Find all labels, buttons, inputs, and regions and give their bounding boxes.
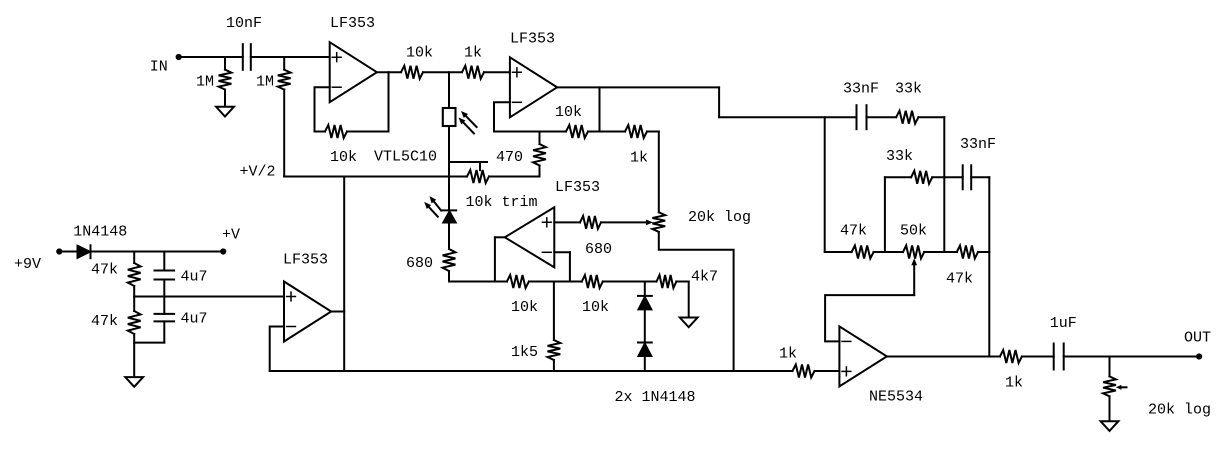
resistor R 1k (NE5534 +in) <box>779 346 815 378</box>
op-amp U2 LF353 <box>510 31 557 118</box>
wire pot bottom to rail <box>659 232 734 371</box>
wiper arrow into 20k log <box>601 220 653 226</box>
svg-text:1k5: 1k5 <box>511 344 538 361</box>
resistor R 1k (to pot) <box>625 125 648 167</box>
svg-text:680: 680 <box>406 255 433 272</box>
wire 1k to NE5534 <box>815 370 840 372</box>
potentiometer R 20k log (volume) <box>1103 357 1211 422</box>
wire U3 +in to 680 <box>554 221 580 223</box>
wire NE5534 output <box>887 356 1000 358</box>
LED of VTL5C10 <box>442 210 456 222</box>
wire divider bottom <box>134 343 164 378</box>
svg-text:1k: 1k <box>1005 374 1023 391</box>
wire cap to opamp U1 <box>251 56 330 58</box>
wire row mid1 <box>529 281 582 283</box>
svg-text:4k7: 4k7 <box>691 269 718 286</box>
node +9V terminal <box>14 248 62 273</box>
wire row mid2 <box>603 281 657 283</box>
ground (4k7) <box>680 318 698 328</box>
svg-text:IN: IN <box>150 59 168 76</box>
svg-text:10k: 10k <box>582 299 609 316</box>
svg-text:VTL5C10: VTL5C10 <box>374 149 437 166</box>
svg-text:LF353: LF353 <box>330 15 375 32</box>
svg-text:10k trim: 10k trim <box>466 194 538 211</box>
node OUT terminal <box>1184 330 1211 360</box>
svg-text:1N4148: 1N4148 <box>73 223 127 240</box>
svg-text:NE5534: NE5534 <box>869 389 923 406</box>
wire NE5534 -in from wiper <box>825 258 917 341</box>
resistor R 47k (lower) <box>91 297 141 343</box>
resistor R 33k (top) <box>895 81 922 124</box>
svg-text:33nF: 33nF <box>960 136 996 153</box>
wire 1k to 1uF <box>1022 356 1054 358</box>
svg-text:33k: 33k <box>895 81 922 98</box>
capacitor C 33nF (mid) <box>960 136 996 189</box>
wire U3 output <box>495 237 504 281</box>
potentiometer R 50k <box>900 222 927 258</box>
node IN terminal <box>150 54 182 76</box>
resistor R 47k (T left) <box>840 222 874 258</box>
svg-text:1k: 1k <box>464 45 482 62</box>
op-amp U1 LF353 <box>330 15 377 102</box>
capacitor C 4u7 (upper) <box>155 252 208 297</box>
svg-text:+9V: +9V <box>14 256 41 273</box>
wire 470 to U2 feedback <box>539 132 541 145</box>
op-amp U5 NE5534 <box>839 326 923 405</box>
resistor R 1k (output) <box>1000 350 1023 391</box>
wire trim to 470 <box>489 166 540 177</box>
svg-text:1k: 1k <box>779 346 797 363</box>
svg-text:20k log: 20k log <box>688 209 751 226</box>
svg-text:47k: 47k <box>91 262 118 279</box>
capacitor C 33nF (top) <box>843 81 879 130</box>
wire bottom rail <box>270 370 793 372</box>
wire row to diodes <box>644 282 646 296</box>
svg-text:20k log: 20k log <box>1148 402 1211 419</box>
resistor R 1k5 <box>511 282 560 372</box>
svg-text:OUT: OUT <box>1184 330 1211 347</box>
LED light arrows <box>424 196 441 217</box>
svg-text:+V/2: +V/2 <box>240 164 276 181</box>
wire U2 output rail <box>556 87 856 117</box>
svg-text:1M: 1M <box>256 74 274 91</box>
svg-text:33nF: 33nF <box>843 81 879 98</box>
ground (1M input) <box>216 107 234 117</box>
svg-text:10k: 10k <box>330 149 357 166</box>
resistor R 10k (U3 fb left) <box>507 275 538 316</box>
resistor R 10k (U2 feedback) <box>555 104 588 138</box>
svg-text:10k: 10k <box>511 299 538 316</box>
wire buffer output <box>331 177 344 372</box>
resistor R 470 <box>496 144 546 166</box>
wire U1 output <box>377 71 401 73</box>
wire 33k to corner <box>918 117 944 252</box>
ground (divider) <box>125 377 143 387</box>
wire T row right end <box>978 251 989 253</box>
diode pair 2x 1N4148 <box>615 296 696 406</box>
node +V terminal <box>220 227 240 255</box>
wire mid row left <box>885 177 911 252</box>
diode D1 1N4148 <box>73 223 127 258</box>
wire node A down to LDR <box>448 72 450 108</box>
svg-text:33k: 33k <box>886 148 913 165</box>
resistor R 1M (input shunt) <box>196 57 231 107</box>
LDR VTL5C10 photocell <box>374 108 456 166</box>
capacitor C 1uF <box>1050 315 1077 369</box>
svg-text:10nF: 10nF <box>226 15 262 32</box>
wire 33k mid to cap <box>932 176 963 178</box>
wire U1 feedback <box>315 72 389 131</box>
svg-text:10k: 10k <box>406 45 433 62</box>
node +V/2 rail <box>240 164 468 181</box>
wire 50k to 47k <box>924 251 957 253</box>
wire IN to cap <box>179 56 243 58</box>
resistor R 680 (LED series) <box>406 249 455 272</box>
wire 9V to diode <box>59 251 77 253</box>
resistor R 1M (bias) <box>256 57 291 177</box>
capacitor C 4u7 (lower) <box>155 297 208 343</box>
wire 1uF to OUT <box>1064 356 1199 358</box>
resistor R 1k (series) <box>462 45 484 79</box>
wire U3 -in <box>554 252 570 281</box>
resistor R 47k (T right) <box>946 246 978 288</box>
wire U2 feedback <box>494 87 600 131</box>
wire buffer feedback <box>270 327 284 372</box>
svg-text:4u7: 4u7 <box>181 311 208 328</box>
wire mid cap to corner <box>971 177 989 356</box>
LDR light arrows <box>459 111 477 134</box>
wire to U2 +in <box>484 71 510 73</box>
wire LDR to LED <box>448 126 450 210</box>
wire 680 to row <box>448 271 450 282</box>
resistor R 680 (wiper feed) <box>580 216 612 258</box>
wire feedback to 1k <box>600 131 626 133</box>
svg-text:+V: +V <box>222 227 240 244</box>
svg-text:2x 1N4148: 2x 1N4148 <box>615 389 696 406</box>
svg-text:47k: 47k <box>91 313 118 330</box>
wire row left <box>449 281 507 283</box>
wire diode to +V <box>91 251 224 253</box>
wire V/2 to buffer <box>134 296 284 298</box>
wire 47k to 50k <box>874 251 903 253</box>
svg-text:1uF: 1uF <box>1050 315 1077 332</box>
svg-text:LF353: LF353 <box>555 179 600 196</box>
svg-text:470: 470 <box>496 149 523 166</box>
svg-text:1M: 1M <box>196 74 214 91</box>
wire 4k7 to ground <box>676 282 688 318</box>
wire node A <box>423 71 462 73</box>
svg-text:47k: 47k <box>840 222 867 239</box>
resistor R 47k (upper) <box>91 252 141 297</box>
potentiometer R 20k log (sidechain) <box>652 209 751 232</box>
wire 1k to pot top <box>647 132 659 213</box>
svg-text:LF353: LF353 <box>510 31 555 48</box>
svg-text:1k: 1k <box>630 150 648 167</box>
wiper arrow volume pot <box>1116 385 1127 390</box>
resistor R 10k (U1 feedback) <box>325 125 357 166</box>
capacitor 10nF <box>226 15 262 70</box>
op-amp U4 LF353 buffer <box>283 252 331 342</box>
resistor R 33k (mid) <box>886 148 932 184</box>
svg-text:LF353: LF353 <box>283 252 328 269</box>
ground (volume pot) <box>1101 421 1119 431</box>
svg-text:4u7: 4u7 <box>181 269 208 286</box>
wire bottom T row <box>825 251 852 253</box>
trimpot R 10k trim <box>466 170 538 211</box>
svg-text:50k: 50k <box>900 222 927 239</box>
resistor R 4k7 <box>657 269 719 289</box>
wire trim wiper tap <box>449 162 487 170</box>
wire T-net left leg <box>824 117 826 252</box>
svg-text:10k: 10k <box>555 104 582 121</box>
op-amp U3 LF353 <box>505 179 600 267</box>
svg-text:47k: 47k <box>946 271 973 288</box>
wire LED to 680 <box>448 223 450 249</box>
resistor R 10k (U3 fb right) <box>582 275 609 316</box>
wire cap to 33k <box>867 116 897 118</box>
svg-text:680: 680 <box>585 241 612 258</box>
resistor R 10k (series) <box>401 45 433 79</box>
